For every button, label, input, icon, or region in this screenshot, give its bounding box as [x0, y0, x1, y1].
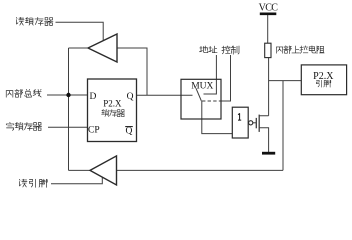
label: 引脚 inside pin box [316, 80, 330, 87]
wire: pin node horizontal to pin box [269, 80, 302, 82]
wire: source down to ground [259, 128, 268, 152]
pin Q-bar overline [125, 126, 133, 128]
wire: top buffer input from Q line [117, 48, 147, 95]
transistor Q1: gate bar [255, 118, 257, 128]
wire: pin vertical down to read-pin wire [282, 81, 284, 171]
VCC supply bar [260, 13, 277, 16]
label: 控制 (control) [222, 46, 239, 54]
svg-text:VCC: VCC [259, 2, 279, 13]
wire: drain up to pull-up [259, 58, 268, 116]
svg-text:MUX: MUX [191, 82, 213, 92]
label: 内部上拉电阻 (internal pull-up resistor) [276, 46, 324, 54]
inverter output bubble [249, 121, 253, 125]
wire: bottom read-pin wire [117, 169, 284, 171]
label: 内部总线 (internal bus) [6, 89, 41, 97]
svg-text:Q: Q [125, 126, 132, 136]
wire: read-latch control lead [56, 22, 104, 41]
svg-text:CP: CP [88, 125, 100, 135]
label: 读引脚 (read pin) [19, 179, 47, 187]
label: 锁存器 inside latch [102, 109, 125, 116]
wire: MUX switch blade [196, 88, 201, 101]
pin box P2.X [301, 65, 346, 95]
wire: left vertical bus (buffer outputs) [68, 48, 70, 170]
wire: top buffer output to bus vertical [69, 47, 89, 49]
wire: MUX dashed control linkage [202, 100, 221, 102]
wire: address input into MUX [204, 55, 217, 94]
inverter U2 box [232, 107, 248, 138]
svg-text:P2.X: P2.X [103, 99, 122, 109]
label: 地址 (address) [200, 46, 218, 53]
wire: bottom buffer output to bus [69, 169, 91, 171]
wire: MUX output down and right to inverter [202, 101, 233, 134]
op-amp style buffer B2 (read pin, points left) [90, 156, 117, 185]
resistor R (internal pull-up) [265, 43, 271, 57]
svg-text:P2.X: P2.X [313, 71, 334, 82]
wire: write-latch lead to CP [48, 126, 88, 128]
op-amp style buffer B1 (read latch, points left) [88, 34, 117, 62]
svg-text:Q: Q [127, 92, 134, 102]
wire: inverter output to gate [253, 122, 256, 124]
transistor Q1: channel bar [258, 115, 260, 132]
label: 写锁存器 (write latch) [6, 122, 41, 130]
label: 读锁存器 (read latch) [16, 17, 53, 25]
label: 1 glyph inside inverter [238, 113, 241, 120]
wire: control input vertical [221, 55, 231, 101]
node: bus junction dot [66, 93, 70, 97]
svg-text:D: D [90, 92, 97, 102]
ground [262, 152, 275, 155]
wire: read-pin control lead [51, 177, 102, 184]
wire: internal bus lead to D [47, 94, 88, 96]
wire: VCC vertical [267, 15, 269, 44]
MUX box [181, 79, 221, 119]
wire: Q output to MUX [137, 94, 193, 96]
latch U1 box (P2.X latch) [88, 79, 137, 142]
